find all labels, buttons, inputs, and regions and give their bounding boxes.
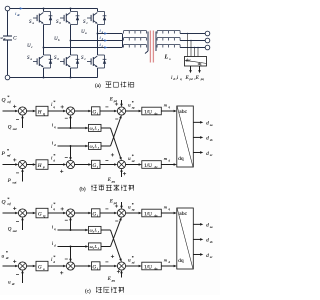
terminal: AC port phase c [205, 45, 210, 50]
wire: DC bus positive rail [10, 8, 98, 10]
wire cross-coupling i_q to bottom summer 3 [101, 229, 111, 231]
wire i_d to decoupling block [58, 246, 86, 248]
svg-text:L: L [94, 144, 98, 149]
svg-text:abc: abc [186, 59, 191, 63]
sign + at summer 2 bottom row [60, 272, 63, 274]
wire: leg c midpoint conductor [97, 25, 99, 56]
svg-text:*: * [6, 250, 8, 255]
wire: measurement tap 2 [190, 41, 192, 57]
svg-text:out: out [13, 127, 17, 131]
summing junction 2 top row [66, 209, 74, 217]
svg-text:P: P [42, 165, 45, 169]
svg-text:s: s [98, 129, 99, 132]
svg-text:G: G [93, 265, 97, 270]
sign - before summer 3 bottom row [105, 159, 108, 161]
sign - feedback bottom row [16, 172, 19, 174]
svg-text:*: * [53, 201, 55, 206]
wire: leg b midpoint conductor [70, 25, 72, 56]
transistor S_ap (lower IGBT leg a) with antiparallel diode [33, 55, 52, 68]
block G_i current regulator top row [92, 209, 101, 217]
transistor S_c (upper IGBT leg c) with antiparallel diode [87, 12, 106, 25]
svg-text:G: G [38, 211, 42, 217]
summing junction 1 bottom row [18, 262, 26, 270]
arrow: measured currents output [190, 66, 192, 71]
svg-text:dq: dq [178, 156, 184, 162]
sign - before summer 3 top row [105, 106, 108, 108]
arrow duty output d_a [193, 223, 200, 225]
summing junction 2 bottom row [66, 160, 74, 168]
terminal: AC port phase a [205, 31, 210, 36]
transistor S_cp (lower IGBT leg c) with antiparallel diode [87, 55, 106, 68]
wire summer1 to G_Q [27, 212, 34, 214]
svg-text:(a): (a) [95, 82, 101, 89]
arrow duty output d_c [193, 151, 200, 153]
svg-text:i: i [97, 267, 98, 271]
current arrow i_dc on positive rail [20, 7, 23, 10]
block G_Q [36, 208, 48, 218]
sign - feedback bottom row [16, 273, 19, 275]
block dq to abc transform [177, 106, 194, 167]
svg-text:*: * [7, 148, 9, 153]
svg-text:d: d [206, 223, 209, 229]
wire i_d to decoupling block [58, 145, 86, 147]
summing junction 3 top row [117, 209, 125, 217]
svg-text:L: L [94, 244, 98, 249]
block omega_s L_s decoupling (i_q) [89, 124, 102, 131]
svg-text:Q: Q [2, 98, 6, 104]
svg-text:Q: Q [2, 200, 6, 206]
svg-text:(b): (b) [80, 185, 86, 192]
svg-text:L: L [164, 55, 169, 61]
wire summer1 to H_Q [27, 110, 34, 112]
svg-text:*: * [53, 254, 55, 259]
wire cross-coupling i_d to top summer 3 [101, 246, 111, 248]
inductor L_s phase a (secondary winding) [157, 31, 180, 34]
wire: grid phase a to terminal [180, 33, 205, 35]
transformer primary winding phase c [124, 45, 147, 48]
svg-text:P: P [7, 179, 11, 184]
wire G_i to summer 3 top row [100, 110, 115, 112]
block 1/Udc bottom row [142, 161, 162, 169]
svg-text:H: H [37, 109, 42, 115]
feedforward E_pq with + sign [121, 171, 123, 177]
arrow duty output d_a [193, 121, 200, 123]
sign - current feedback bottom row [65, 157, 68, 159]
summing junction 1 bottom row [18, 160, 26, 168]
sign + at summer 2 bottom row [60, 170, 63, 172]
svg-text:G: G [93, 164, 97, 169]
inductor L_s phase b (secondary winding) [157, 38, 180, 41]
transformer secondary left connection bar [155, 32, 157, 52]
svg-text:1/U: 1/U [144, 109, 152, 115]
svg-text:1/U: 1/U [144, 264, 152, 270]
current arrow i_c [104, 46, 107, 49]
transformer primary winding phase b [124, 38, 147, 41]
summing junction 2 top row [66, 107, 74, 115]
svg-text:1/U: 1/U [144, 211, 152, 217]
summing junction 3 bottom row [117, 160, 125, 168]
block 1/Udc top row [142, 107, 162, 115]
wire summer3 to 1/Udc top row with label u*_sq [126, 212, 140, 214]
sign - feedback 1 [16, 220, 19, 222]
feedforward E_pq with + sign [121, 273, 123, 278]
wire to summer 2 with label i*_q [48, 110, 64, 112]
inductor L_s phase c (secondary winding) [157, 45, 180, 48]
wire G_i to summer 3 bottom row [100, 265, 115, 267]
sign + at summer 1 of Q*_ref row [13, 207, 16, 209]
svg-text:i: i [97, 112, 98, 116]
svg-text:*: * [132, 255, 134, 260]
svg-text:i: i [97, 165, 98, 169]
wire summer1 to G_u [27, 265, 34, 267]
node input Q*_ref [3, 212, 16, 214]
wire G_i to summer 3 bottom row [100, 164, 115, 166]
wire i_q tap up to summer 2 [70, 118, 72, 128]
sign + decoupling input bottom row [111, 255, 114, 257]
svg-text:abc: abc [179, 211, 187, 217]
wire i_q to decoupling block [58, 127, 86, 129]
current arrow i_a [104, 32, 107, 35]
wire: phase output U_c from leg 1 [44, 47, 123, 49]
wire to summer 2 with label i*_q [48, 212, 64, 214]
feedback P_out [22, 171, 24, 181]
transistor S_b (upper IGBT leg b) with antiparallel diode [60, 12, 79, 25]
wire: DC bus negative rail [10, 77, 98, 79]
current arrow i_b [104, 39, 107, 42]
sign - before summer 3 top row [105, 208, 108, 210]
sign - feedback 1 [16, 118, 19, 120]
summing junction 1 Q*_ref row [18, 107, 26, 115]
terminal: DC negative input port [5, 75, 10, 80]
block G_i current regulator top row [92, 107, 101, 115]
transformer primary winding phase a [124, 31, 147, 34]
block H_Q [36, 106, 48, 116]
svg-text:*: * [53, 153, 55, 158]
svg-text:Q: Q [8, 126, 12, 131]
block G_u [36, 261, 48, 271]
svg-text:E: E [109, 97, 113, 102]
wire i_d tap down to summer 2 [70, 247, 72, 260]
svg-text:G: G [38, 264, 42, 270]
wire summer2 to G_i bottom row [75, 164, 89, 166]
svg-text:Q: Q [8, 228, 12, 233]
sign + at summer 1 bottom row [13, 159, 16, 161]
wire: leg a midpoint conductor [43, 25, 45, 56]
wire: grid phase c to terminal [180, 47, 205, 49]
svg-text:abc: abc [179, 109, 187, 115]
block G_i current regulator bottom row [92, 262, 101, 270]
sign + at summer 1 bottom row [13, 260, 16, 262]
wire: left DC link vertical [7, 11, 9, 36]
svg-text:pq: pq [200, 77, 205, 81]
svg-text:P: P [1, 151, 6, 157]
arrow duty output d_c [193, 253, 200, 255]
terminal: AC port phase b [205, 38, 210, 43]
sign + at summer 1 of Q*_ref row [13, 105, 16, 107]
svg-text:i: i [97, 214, 98, 218]
wire: phase output U_a from leg 3 [98, 33, 123, 35]
wire i_d tap down to summer 2 [70, 146, 72, 158]
wire summer3 to 1/Udc bottom row with label u*_sd [126, 265, 140, 267]
svg-text:d: d [206, 238, 209, 244]
svg-text:L: L [94, 126, 98, 131]
svg-text:d: d [206, 151, 209, 157]
feedforward E_pd with + sign [121, 100, 123, 104]
feedback Q_out [22, 220, 24, 230]
svg-text:H: H [37, 163, 42, 169]
sign - decoupling input top row [115, 118, 118, 120]
sign + at summer 2 top row [61, 208, 64, 210]
svg-text:*: * [132, 153, 134, 158]
svg-text:u: u [2, 253, 5, 259]
svg-text:d: d [206, 121, 209, 127]
wire summer2 to G_i top row [75, 212, 89, 214]
transformer core [149, 31, 151, 63]
node input P*_ref [3, 164, 16, 166]
sign - decoupling input top row [115, 220, 118, 222]
sign - current feedback top row [65, 117, 68, 119]
wire i_q tap up to summer 2 [70, 220, 72, 230]
transistor S_bp (lower IGBT leg b) with antiparallel diode [60, 55, 79, 68]
wire G_i to summer 3 top row [100, 212, 115, 214]
summing junction 3 top row [117, 107, 125, 115]
wire to dq-abc block with label m_q [161, 212, 174, 214]
wire summer2 to G_i bottom row [75, 265, 89, 267]
sign - before summer 3 bottom row [105, 261, 108, 263]
svg-text:d: d [206, 136, 209, 142]
svg-text:G: G [93, 212, 97, 217]
block H_P [36, 160, 48, 170]
block G_i current regulator bottom row [92, 160, 101, 168]
wire to dq-abc block with label m_q [161, 110, 174, 112]
node input Q*_ref [3, 110, 16, 112]
wire to summer 2 bottom row [48, 265, 64, 267]
svg-text:E: E [107, 178, 111, 183]
transformer primary winding connection bar [122, 34, 124, 48]
block 1/Udc bottom row [142, 262, 162, 270]
sign + at summer 2 top row [61, 106, 64, 108]
summing junction 1 Q*_ref row [18, 209, 26, 217]
feedforward E_pd with + sign [121, 202, 123, 206]
wire to dq-abc block with label m_d [161, 164, 174, 166]
wire to dq-abc block with label m_d [161, 265, 174, 267]
wire: measurement tap 3 [194, 48, 196, 57]
wire: phase output U_b from leg 2 [71, 40, 123, 42]
wire summer1 to H_P [27, 164, 34, 166]
block omega_s L_s decoupling (i_q) [89, 226, 102, 233]
wire summer2 to G_i top row [75, 110, 89, 112]
wire summer3 to 1/Udc top row with label u*_sq [126, 110, 140, 112]
svg-text:pq: pq [111, 180, 116, 184]
svg-text:E: E [107, 277, 111, 282]
terminal: DC positive input port [5, 6, 10, 11]
svg-text:*: * [132, 202, 134, 207]
svg-text:E: E [109, 199, 113, 204]
transistor S_a (upper IGBT leg a) with antiparallel diode [33, 12, 52, 25]
svg-text:s: s [98, 147, 99, 150]
wire: grid phase b to terminal [180, 40, 205, 42]
svg-text:*: * [7, 94, 9, 99]
svg-text:pd: pd [189, 77, 194, 81]
svg-text:d: d [206, 253, 209, 259]
capacitor C (DC link) [3, 35, 12, 37]
svg-text:(c): (c) [85, 288, 91, 295]
summing junction 3 bottom row [117, 262, 125, 270]
transformer primary right connection bar [147, 32, 149, 52]
block omega_s L_s decoupling (i_d) [89, 243, 102, 250]
block omega_s L_s decoupling (i_d) [89, 142, 102, 149]
node input u*_dc [3, 265, 16, 267]
sign - current feedback bottom row [65, 258, 68, 260]
wire i_q to decoupling block [58, 229, 86, 231]
arrow duty output d_b [193, 238, 200, 240]
feedback u_dc [22, 273, 24, 283]
wire summer3 to 1/Udc bottom row with label u*_sd [126, 164, 140, 166]
svg-text:dq: dq [178, 258, 184, 264]
svg-text:G: G [93, 110, 97, 115]
block abc/dq measurement transform [185, 57, 207, 67]
summing junction 2 bottom row [66, 262, 74, 270]
wire cross-coupling i_q to bottom summer 3 [101, 127, 111, 129]
svg-text:out: out [13, 180, 17, 184]
sign - current feedback top row [65, 219, 68, 221]
svg-text:1/U: 1/U [144, 163, 152, 169]
svg-text:*: * [132, 100, 134, 105]
wire: measurement tap 4 [197, 48, 199, 57]
sign + decoupling input bottom row [111, 154, 114, 156]
svg-text:dq: dq [198, 62, 202, 66]
arrow duty output d_b [193, 136, 200, 138]
svg-text:*: * [7, 196, 9, 201]
wire: measurement tap 1 [187, 34, 189, 57]
feedback Q_out [22, 118, 24, 128]
block dq to abc transform [177, 208, 194, 269]
wire to summer 2 bottom row [48, 164, 64, 166]
wire cross-coupling i_d to top summer 3 [101, 145, 111, 147]
svg-text:s: s [98, 247, 99, 250]
svg-text:pq: pq [111, 278, 116, 282]
svg-text:s: s [98, 231, 99, 234]
svg-text:*: * [53, 99, 55, 104]
arrow: measured voltages output [199, 66, 201, 71]
svg-text:L: L [94, 228, 98, 233]
block 1/Udc top row [142, 209, 162, 217]
svg-text:out: out [13, 229, 17, 233]
